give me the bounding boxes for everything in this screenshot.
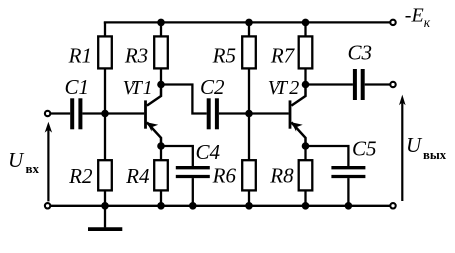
capacitor C3 bbox=[355, 69, 363, 100]
node bottom rail / R4 bbox=[157, 202, 165, 210]
node bottom rail / C5 bbox=[345, 202, 353, 210]
wire collector stem 2 (R7 column) bbox=[304, 22, 306, 84]
input arrow bbox=[45, 122, 52, 202]
node emitter 2 bbox=[302, 142, 310, 150]
wire input to C1 left bbox=[51, 112, 70, 114]
wire collector stem 1 (R3 column) bbox=[160, 22, 162, 84]
svg-text:R5: R5 bbox=[212, 43, 236, 67]
svg-text:VT2: VT2 bbox=[268, 77, 300, 99]
resistor R6 bbox=[242, 160, 256, 190]
node collector 1 bbox=[157, 81, 165, 89]
node bottom rail / R8 bbox=[302, 202, 310, 210]
wire ground stem bbox=[104, 206, 106, 228]
resistor R5 bbox=[242, 36, 256, 68]
resistor R8 bbox=[299, 160, 313, 190]
capacitor C1 bbox=[72, 98, 80, 129]
transistor VT2 bbox=[290, 85, 306, 147]
wire base 2 (node B to VT2 base) bbox=[249, 112, 289, 114]
svg-text:R8: R8 bbox=[269, 164, 294, 188]
wire collector 2 to C3 left bbox=[306, 83, 353, 85]
resistor R3 bbox=[154, 36, 168, 68]
node collector 2 bbox=[302, 81, 310, 89]
node bottom rail / C4 bbox=[189, 202, 197, 210]
terminal output bottom bbox=[390, 203, 395, 208]
node emitter 1 bbox=[157, 142, 165, 150]
wire R4 stem bbox=[160, 146, 162, 206]
terminal output top bbox=[390, 82, 395, 87]
ground bbox=[88, 227, 122, 231]
node top rail / R3 bbox=[157, 19, 165, 27]
node B base 2 bbox=[245, 110, 253, 118]
resistor R4 bbox=[154, 160, 168, 190]
wire C1 right to node A bbox=[82, 112, 105, 114]
wire emitter 2 to C5 bbox=[306, 146, 349, 166]
wire C3 right to output terminal bbox=[365, 83, 390, 85]
terminal input top bbox=[45, 111, 50, 116]
wire C5 bottom lead bbox=[347, 178, 349, 206]
resistor R2 bbox=[98, 160, 112, 190]
svg-text:C4: C4 bbox=[196, 140, 221, 164]
wire collector 1 to C2 left bbox=[161, 85, 207, 114]
wire top supply rail bbox=[104, 21, 390, 23]
node A base 1 bbox=[101, 110, 109, 118]
svg-text:R1: R1 bbox=[68, 43, 92, 67]
wire emitter 1 to C4 bbox=[161, 146, 193, 166]
wire base 1 (node A to VT1 base) bbox=[105, 112, 144, 114]
svg-text:R3: R3 bbox=[124, 43, 148, 67]
svg-text:R2: R2 bbox=[68, 164, 93, 188]
svg-text:C1: C1 bbox=[64, 75, 89, 99]
resistor R1 bbox=[98, 36, 112, 68]
wire R8 stem bbox=[304, 146, 306, 206]
capacitor C2 bbox=[209, 98, 217, 129]
capacitor C4 bbox=[176, 168, 210, 177]
node bottom rail / R2 / ground bbox=[101, 202, 109, 210]
output arrow bbox=[399, 95, 406, 201]
wire C2 right to node B bbox=[219, 112, 249, 114]
svg-text:R6: R6 bbox=[212, 164, 237, 188]
node bottom rail / R6 bbox=[245, 202, 253, 210]
svg-text:C5: C5 bbox=[352, 137, 377, 161]
svg-text:VT1: VT1 bbox=[123, 77, 153, 99]
terminal supply -Ek bbox=[390, 20, 395, 25]
svg-text:C3: C3 bbox=[347, 41, 372, 65]
capacitor C5 bbox=[331, 168, 365, 177]
svg-text:R4: R4 bbox=[125, 164, 150, 188]
transistor VT1 bbox=[146, 85, 162, 147]
resistor R7 bbox=[299, 36, 313, 68]
svg-text:R7: R7 bbox=[270, 43, 296, 67]
wire divider stem 2 (R5/R6 column) bbox=[248, 22, 250, 205]
terminal input bottom bbox=[45, 203, 50, 208]
node top rail / R5 bbox=[245, 19, 253, 27]
wire bottom ground rail bbox=[51, 205, 390, 207]
svg-text:C2: C2 bbox=[200, 75, 225, 99]
node top rail / R7 bbox=[302, 19, 310, 27]
wire divider stem 1 (R1/R2 column) bbox=[104, 22, 106, 205]
wire C4 bottom lead bbox=[192, 178, 194, 206]
